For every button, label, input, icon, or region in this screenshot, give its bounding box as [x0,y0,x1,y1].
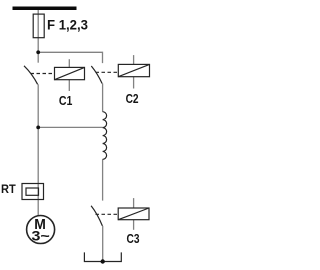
svg-text:C2: C2 [126,91,139,106]
svg-text:C3: C3 [127,231,140,246]
svg-text:F 1,2,3: F 1,2,3 [47,17,88,32]
svg-text:C1: C1 [59,93,73,108]
svg-text:3~: 3~ [32,228,50,244]
svg-text:RT: RT [1,184,16,196]
